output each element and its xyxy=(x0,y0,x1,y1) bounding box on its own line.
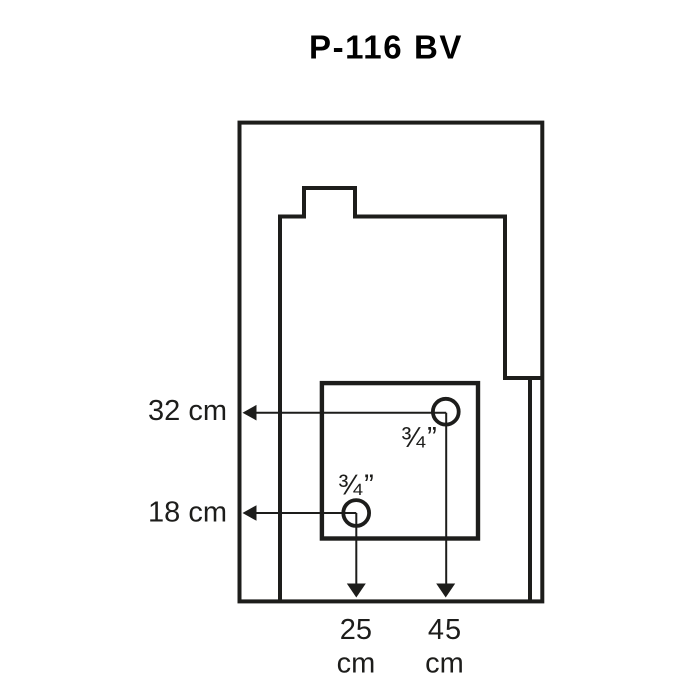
svg-text:¾”: ¾” xyxy=(338,470,376,502)
svg-text:25: 25 xyxy=(340,614,372,646)
svg-text:32 cm: 32 cm xyxy=(148,395,227,427)
svg-text:P-116 BV: P-116 BV xyxy=(309,29,463,66)
svg-text:cm: cm xyxy=(337,648,376,680)
svg-text:18 cm: 18 cm xyxy=(148,496,227,528)
svg-text:¾”: ¾” xyxy=(401,422,439,454)
svg-text:45: 45 xyxy=(428,614,462,646)
svg-text:cm: cm xyxy=(425,648,464,680)
